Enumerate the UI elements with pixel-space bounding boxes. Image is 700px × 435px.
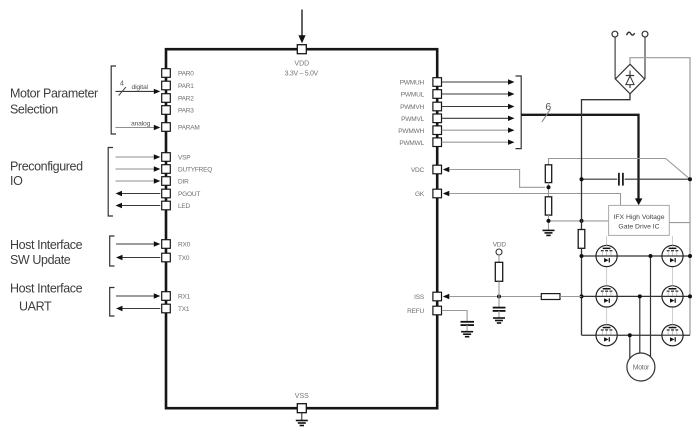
svg-text:PWMWH: PWMWH <box>398 128 424 135</box>
arrowhead 6-bus into driver <box>635 198 643 205</box>
wire VDC sense <box>449 170 545 188</box>
arrow into DUTYFREQ <box>116 166 161 171</box>
pin VSS <box>295 393 309 413</box>
svg-text:PAR2: PAR2 <box>178 95 194 102</box>
pin PAR2 <box>162 94 195 103</box>
svg-text:Preconfigured: Preconfigured <box>10 160 83 174</box>
pin PAR0 <box>162 69 195 78</box>
pin TX0 <box>162 253 190 262</box>
arrow PWMWH out <box>442 128 515 133</box>
label Motor Parameter Selection <box>10 87 98 117</box>
svg-text:REFU: REFU <box>407 308 424 315</box>
svg-text:DUTYFREQ: DUTYFREQ <box>178 166 212 173</box>
svg-text:PWMWL: PWMWL <box>399 140 424 147</box>
svg-text:Motor Parameter: Motor Parameter <box>10 87 98 101</box>
svg-text:VSS: VSS <box>295 393 309 400</box>
wire DC- bus (bridge bottom to left rail) <box>582 94 631 230</box>
capacitor C3 (ISS filter) <box>493 308 506 311</box>
svg-text:PWMVL: PWMVL <box>401 116 424 123</box>
transistor Q2 (U low) <box>662 245 683 266</box>
bracket uart group <box>110 288 115 317</box>
svg-text:TX1: TX1 <box>178 306 190 313</box>
node VDC sense tap <box>547 185 551 189</box>
capacitor C2 (DC link) <box>619 173 623 186</box>
arrow out of TX1 <box>116 306 160 311</box>
arrow PWMUH out <box>442 79 515 84</box>
resistor R3 (shunt in rail) <box>578 230 585 249</box>
resistor R5 (ISS pull-up) <box>495 262 502 281</box>
pin DIR <box>162 177 189 186</box>
svg-text:PGOUT: PGOUT <box>178 191 200 198</box>
gate wires left column <box>606 236 608 325</box>
svg-text:4: 4 <box>120 81 124 88</box>
node phase V <box>638 294 642 298</box>
wire REFU to cap <box>442 311 467 322</box>
wire phase V to motor <box>639 296 641 353</box>
pin PAR3 <box>162 106 195 115</box>
transistor Q3 (V high) <box>596 286 617 307</box>
arrow PWMWL out <box>442 140 515 145</box>
label Preconfigured IO <box>10 160 83 189</box>
pin PWMUH <box>400 78 442 87</box>
pin VDD <box>285 45 319 78</box>
wire DC+ rail (bridge top to right rail down) <box>630 58 690 336</box>
svg-text:PAR1: PAR1 <box>178 83 194 90</box>
bracket preconfigured group <box>108 148 113 217</box>
gate wires right column <box>672 236 674 325</box>
digital bus arrow into PAR pins <box>116 81 161 96</box>
svg-text:digital: digital <box>132 84 149 91</box>
svg-text:VDC: VDC <box>411 167 425 174</box>
svg-text:ISS: ISS <box>414 294 425 301</box>
arrow out of PGOUT <box>116 191 161 196</box>
analog arrow into PARAM <box>116 120 161 130</box>
resistor R2 (divider bottom) <box>545 197 551 215</box>
node divider-ground <box>547 219 551 223</box>
pin PWMVL <box>401 114 441 123</box>
wire DC-link cap left <box>582 178 618 180</box>
bracket motor-parameter group <box>111 66 116 134</box>
svg-text:6: 6 <box>545 101 551 113</box>
svg-text:SW Update: SW Update <box>10 253 71 267</box>
node ISS pull-up tap <box>497 295 501 299</box>
node phase U <box>649 254 653 258</box>
ground below C4 <box>461 332 473 337</box>
svg-text:LED: LED <box>178 203 191 210</box>
pin REFU <box>407 306 441 315</box>
wire AC right to bridge <box>644 37 646 79</box>
svg-text:Motor: Motor <box>633 365 650 372</box>
wire half-bridge row V <box>582 295 691 297</box>
motor M1 <box>627 353 655 381</box>
arrow PWMVL out <box>442 116 515 121</box>
svg-text:PAR0: PAR0 <box>178 70 194 77</box>
svg-text:Gate Drive IC: Gate Drive IC <box>618 224 659 231</box>
bridge rectifier BR1 <box>615 64 644 94</box>
svg-text:GK: GK <box>415 191 425 198</box>
pin LED <box>162 201 191 210</box>
wire phase W to motor <box>629 335 631 358</box>
arrow out of TX0 <box>116 255 160 260</box>
resistor R4 (ISS series) <box>541 294 560 300</box>
svg-text:VSP: VSP <box>178 154 190 161</box>
svg-text:RX0: RX0 <box>178 241 191 248</box>
arrow into DIR <box>116 178 161 183</box>
arrow into VSP <box>116 154 161 159</box>
svg-text:UART: UART <box>19 300 52 314</box>
capacitor C4 (REFU) <box>461 322 475 325</box>
pin TX1 <box>162 304 190 313</box>
pin PGOUT <box>162 189 201 198</box>
arrow PWMVH out <box>442 104 515 109</box>
bus width slash <box>542 109 550 122</box>
pin RX1 <box>162 292 191 301</box>
wire AC left to bridge <box>614 37 616 79</box>
svg-text:PAR3: PAR3 <box>178 107 194 114</box>
arrow into RX0 <box>116 241 160 246</box>
node rail at y=220.9 <box>580 219 584 223</box>
pin PWMVH <box>400 102 441 111</box>
node rail row U right <box>688 254 692 258</box>
bracket sw-update group <box>110 236 115 266</box>
svg-text:RX1: RX1 <box>178 293 191 300</box>
resistor R1 (divider top) <box>545 165 551 183</box>
arrow out of LED <box>116 203 161 208</box>
arrowhead into GK <box>443 191 450 196</box>
wire C3 to ground <box>498 311 500 318</box>
svg-text:analog: analog <box>131 120 151 127</box>
arrowhead into ISS <box>443 294 450 299</box>
svg-text:TX0: TX0 <box>178 255 190 262</box>
wire VSS to ground <box>301 413 303 420</box>
svg-text:VDD: VDD <box>294 61 309 68</box>
arrow PWMUL out <box>442 91 515 96</box>
pin VSP <box>162 153 191 162</box>
AC terminal right <box>642 31 648 37</box>
wire PWM 6-bus to gate driver <box>521 115 638 199</box>
transistor Q4 (V low) <box>662 286 683 307</box>
chip U1 (motor controller) <box>166 49 437 408</box>
label AC ~ <box>627 32 635 35</box>
transistor Q1 (U high) <box>596 245 617 266</box>
bracket PWM bus collector <box>516 76 522 149</box>
wire C4 to ground <box>466 325 468 331</box>
svg-text:PWMVH: PWMVH <box>400 104 424 111</box>
pin RX0 <box>162 240 191 249</box>
node phase W <box>628 333 632 337</box>
wire ISS sense left <box>449 296 541 298</box>
pin PWMWL <box>399 138 441 147</box>
svg-text:PWMUH: PWMUH <box>400 80 425 87</box>
pin PWMUL <box>401 90 442 99</box>
pin PARAM <box>162 123 200 132</box>
pin VDC <box>411 165 442 174</box>
ground at VSS <box>296 421 308 426</box>
node rail row V left <box>580 294 584 298</box>
wire R5 to ISS node to cap <box>498 281 500 307</box>
arrow into RX1 <box>116 293 160 298</box>
wire divider bottom to ground <box>548 215 550 230</box>
node rail row V right <box>688 294 692 298</box>
AC terminal left <box>612 31 618 37</box>
transistor Q5 (W high) <box>596 325 617 346</box>
wire half-bridge row W <box>582 334 691 336</box>
node bus-cap <box>580 177 584 181</box>
label Host Interface SW Update <box>10 238 83 267</box>
node rail row U left <box>580 254 584 258</box>
ground below C3 <box>493 318 505 323</box>
wire divider bottom to gate driver <box>549 220 609 222</box>
wire divider top to DC+ rail <box>549 159 691 180</box>
wire phase U to motor <box>650 256 652 357</box>
wire DC-link cap right <box>625 178 690 180</box>
pin ISS <box>414 292 441 301</box>
wire GK to gate driver <box>449 194 621 206</box>
node rail-cap <box>688 177 692 181</box>
svg-text:IFX High Voltage: IFX High Voltage <box>613 214 664 221</box>
transistor Q6 (W low) <box>662 325 683 346</box>
svg-text:DIR: DIR <box>178 178 189 185</box>
svg-text:IO: IO <box>10 174 23 188</box>
wire divider middle <box>548 183 550 197</box>
ground below divider <box>543 230 555 235</box>
terminal VDD pull-up <box>496 249 502 255</box>
gate driver box U2 <box>609 205 670 235</box>
wire half-bridge row U <box>582 255 691 257</box>
label Host Interface UART <box>10 282 83 314</box>
svg-text:Host Interface: Host Interface <box>10 238 83 252</box>
pin PAR1 <box>162 81 195 90</box>
pin DUTYFREQ <box>162 165 213 174</box>
wire driver to DC+ rail <box>669 222 690 224</box>
svg-text:VDD: VDD <box>493 242 507 249</box>
svg-text:PWMUL: PWMUL <box>401 92 425 99</box>
wire rail below shunt <box>581 248 583 335</box>
svg-text:Host Interface: Host Interface <box>10 282 83 296</box>
pin GK <box>415 189 442 198</box>
arrowhead into VDC <box>443 167 450 172</box>
pin PWMWH <box>398 126 441 135</box>
svg-text:3.3V – 5.0V: 3.3V – 5.0V <box>285 71 319 78</box>
svg-text:Selection: Selection <box>10 103 58 117</box>
wire VDD terminal to R5 <box>498 255 500 262</box>
wire ISS sense right <box>560 296 582 298</box>
svg-text:PARAM: PARAM <box>178 124 200 131</box>
VDD supply arrow <box>298 10 305 44</box>
